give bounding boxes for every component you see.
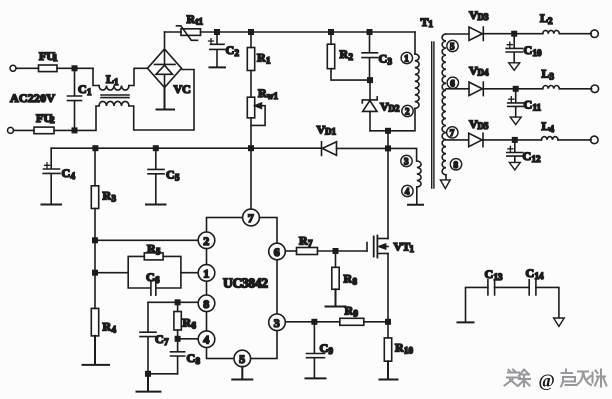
svg-text:3: 3 [112,194,117,204]
svg-text:8: 8 [353,277,358,287]
ground bar below R8 [326,289,346,306]
svg-text:9: 9 [329,346,334,356]
wire FU1 to node A and L1 [57,67,93,69]
svg-text:11: 11 [533,103,542,113]
wire bridge top vertex to top rail [164,32,166,49]
svg-text:4: 4 [71,171,76,181]
junction at C3 top [367,30,371,34]
svg-text:D3: D3 [478,12,489,22]
pin 3 circle UC3842 [269,314,286,331]
op-amp U1 IC UC3842 body [207,218,278,359]
svg-text:R: R [340,47,349,61]
svg-text:R: R [299,234,308,248]
capacitor C12 electrolytic [507,140,541,164]
svg-text:3: 3 [388,57,393,67]
pin 2 circle T1 [402,105,413,116]
wire L2 to output terminal 1 [559,30,598,38]
svg-text:5: 5 [239,352,245,366]
svg-text:UC3842: UC3842 [223,276,268,291]
svg-text:6: 6 [450,78,455,88]
ground bar below C2 [210,66,226,68]
ground bar below IC pin 5 [232,367,252,380]
wire mid rail [51,147,321,149]
wire L1 bottom winding to bridge right vertex [129,70,194,131]
fuse FU2 [34,111,55,134]
svg-text:7: 7 [164,337,169,347]
pin 5 circle T1 [447,40,458,51]
svg-text:D4: D4 [478,68,489,78]
junction C7 C8 ground node [146,372,150,376]
svg-text:7: 7 [450,128,455,138]
svg-text:C: C [166,168,175,182]
svg-text:VT: VT [394,240,411,254]
svg-text:14: 14 [535,271,545,281]
capacitor C1 [68,68,93,130]
wire C7 C8 bottom bus [148,373,178,375]
svg-text:6: 6 [274,245,280,259]
svg-text:7: 7 [248,211,254,225]
thermistor Rt1 [177,12,204,40]
junction C10 node [512,32,516,36]
wire R3 to R4 column [94,209,96,309]
resistor R1 [247,32,271,71]
wire VD3 to L2 [483,33,543,35]
capacitor C2 electrolytic [209,32,240,67]
diode VD5 [469,117,489,147]
ground bar below T1 pin 4 [408,204,423,206]
pin 7 circle T1 [447,127,458,138]
wire drain riser upper [387,131,389,148]
svg-text:R: R [103,320,112,334]
diode VD3 [469,8,489,41]
svg-text:@: @ [539,371,555,391]
junction mid rail at R3 [93,146,97,150]
junction C9 node [312,320,316,324]
svg-text:C: C [187,351,196,365]
wire to R5 C6 network [95,272,128,274]
wire top rail [165,31,416,33]
svg-text:C: C [523,149,532,163]
svg-text:C: C [146,270,155,284]
ground bar below C13 network left [458,321,474,323]
svg-text:8: 8 [196,356,201,366]
resistor R9 [340,304,364,326]
svg-text:R: R [103,189,112,203]
junction C8 top node [175,337,179,341]
ground arrow below C12 [509,162,520,170]
wire R6 bottom to IC pin 4 [178,330,199,339]
svg-text:1: 1 [203,266,209,280]
transformer T1 label [421,15,434,29]
svg-text:2: 2 [548,16,553,26]
capacitor C4 [43,148,75,203]
ground bar below C5 [146,204,166,206]
pin 1 circle T1 [401,52,412,63]
wire FU2 to L1 bottom winding [54,106,99,130]
junction at R2 [329,30,333,34]
svg-text:R: R [183,316,192,330]
ground bar below C4 [42,204,62,206]
pin 4 circle UC3842 [198,331,215,348]
diode VD1 [317,123,337,156]
svg-text:8: 8 [454,160,459,170]
svg-text:10: 10 [404,346,414,356]
svg-text:L: L [542,67,550,81]
wire AC neutral input to fuse FU2 [8,127,35,133]
wire main junction to transformer pin3 [388,148,417,161]
svg-text:3: 3 [274,316,280,330]
svg-text:6: 6 [192,321,197,331]
svg-text:4: 4 [203,333,209,347]
junction C12 node [513,138,517,142]
svg-text:1: 1 [266,56,271,66]
svg-text:1: 1 [53,53,58,63]
wire R7 to gate node [318,250,368,252]
pin 4 circle T1 [402,185,413,196]
junction source node [386,320,390,324]
junction main drain node [386,146,390,150]
svg-text:R: R [147,242,156,256]
svg-text:R: R [395,341,404,355]
svg-text:C: C [62,166,71,180]
wire IC pin 3 to R9 [285,321,340,323]
resistor R2 [327,32,353,69]
svg-text:1: 1 [410,244,415,254]
wire secondary tap pin7 to VD5 [446,139,469,141]
capacitor C5 [148,148,180,203]
svg-text:C: C [226,43,235,57]
bridge rectifier VC [148,49,191,96]
svg-text:R: R [258,86,267,100]
svg-text:w1: w1 [267,91,278,101]
junction mid rail at C5 [154,146,158,150]
svg-text:6: 6 [155,275,160,285]
svg-text:2: 2 [349,52,354,62]
ground arrow below secondary winding pin 8 [440,180,450,189]
junction C11 node [514,87,518,91]
svg-text:D2: D2 [389,104,400,114]
svg-text:5: 5 [175,173,180,183]
inductor L1 common-mode choke [93,68,129,106]
capacitor C9 [307,322,334,378]
ground bar below C9 [306,377,326,379]
wire C13 C14 network [466,287,559,321]
svg-text:C: C [155,332,164,346]
ground arrow below C10 [509,63,520,71]
svg-text:1: 1 [429,19,434,29]
svg-text:AC220V: AC220V [10,91,55,105]
wire IC pin 6 to R7 [285,250,296,252]
svg-text:3: 3 [404,157,409,167]
pin 8 circle UC3842 [198,295,215,312]
ground arrow below C11 [510,117,521,125]
svg-text:T: T [421,15,429,29]
transformer T1 feedback winding pins 3-4 [417,161,421,204]
svg-text:C: C [379,52,388,66]
wire secondary tap pin5 to VD3 [446,33,469,35]
node A junction [72,66,76,70]
capacitor C10 electrolytic [506,34,542,63]
wire to IC pin 2 [95,239,198,241]
node B junction on neutral [72,128,76,132]
watermark 头条@卢飞快 [505,370,607,391]
capacitor C7 [140,302,169,374]
ground arrow below C14 network right [554,318,565,326]
svg-text:10: 10 [533,48,543,58]
pin 6 circle UC3842 [269,243,286,260]
junction drain node top [386,129,390,133]
junction pin1 network node [93,271,97,275]
wire L3 to output terminal 2 [559,85,598,93]
junction R6 top node [175,300,179,304]
wire VD1 to main junction [337,147,389,149]
junction at R1 [249,30,253,34]
svg-text:1: 1 [87,87,92,97]
svg-text:2: 2 [50,115,55,125]
pin 6 circle T1 [447,77,458,88]
svg-text:1: 1 [404,54,409,64]
capacitor C3 [362,32,393,80]
svg-text:8: 8 [203,297,209,311]
svg-text:4: 4 [550,124,555,134]
junction gate node [333,249,337,253]
transformer T1 secondary winding [442,34,446,180]
potentiometer Rw1 [247,71,278,126]
capacitor C13 [485,267,504,295]
junction mid rail at pin7 riser [249,146,253,150]
svg-text:R: R [257,51,266,65]
pin 1 circle UC3842 [198,265,215,282]
svg-text:4: 4 [112,325,117,335]
svg-text:R: R [344,272,353,286]
svg-text:R: R [345,304,354,318]
svg-text:1: 1 [114,77,119,87]
junction clamp node [368,78,372,82]
resistor R7 [297,234,318,255]
svg-text:2: 2 [235,48,240,58]
svg-text:L: L [542,119,550,133]
transformer T1 core [432,42,434,188]
svg-text:C: C [524,98,533,112]
inductor L4 [542,119,559,140]
svg-text:L: L [106,72,114,86]
svg-text:9: 9 [354,309,359,319]
wire L1 top winding to bridge left vertex [129,68,148,85]
svg-text:C: C [526,266,535,280]
svg-text:C: C [320,341,329,355]
svg-text:L: L [540,11,548,25]
svg-text:t1: t1 [196,17,204,27]
pin 3 circle T1 [401,155,412,166]
fuse FU1 [39,49,59,72]
wire L4 to output terminal 3 [558,136,598,144]
svg-text:VC: VC [174,82,191,96]
diode VD4 [469,64,489,96]
resistor R5 with capacitor C6 parallel loop [128,242,181,296]
ground bar below bridge VC [157,88,175,110]
wire R9 to source node [364,321,388,323]
resistor R4 [91,308,116,336]
ground bar below C7 C8 [137,374,161,392]
svg-text:5: 5 [450,42,455,52]
wire pin7 riser [250,148,252,209]
junction pin2 node [93,238,97,242]
svg-text:5: 5 [156,247,161,257]
resistor R10 [384,322,413,361]
inductor L3 [542,67,560,89]
svg-text:C: C [524,43,533,57]
junction at C2 [215,30,219,34]
resistor R3 [91,148,116,208]
resistor R8 [332,251,358,289]
wire R2 bottom to clamp node [331,69,370,80]
capacitor C11 electrolytic [508,89,542,117]
wire Rw1 to mid rail junction [250,118,252,148]
pin 8 circle T1 [450,159,461,170]
svg-text:C: C [485,267,494,281]
pin 5 circle UC3842 [234,350,251,367]
ground bar below R4 [83,336,110,365]
node AC220V input label [10,91,55,105]
wire secondary tap pin6 to VD4 [446,88,469,90]
wire drain riser lower [387,148,389,238]
wire IC pin 8 node [148,301,198,303]
svg-text:C: C [78,82,87,96]
pin 7 circle UC3842 [243,209,260,226]
inductor L2 [540,11,559,34]
svg-text:7: 7 [308,239,313,249]
svg-text:3: 3 [550,72,555,82]
wire R5 C6 network to IC pin 1 [181,272,198,274]
svg-text:D1: D1 [325,127,336,137]
transistor Q1 MOSFET VT1 [367,236,415,258]
resistor R6 [174,302,197,330]
capacitor C14 [526,266,545,295]
svg-text:12: 12 [532,154,542,164]
pin 2 circle UC3842 [198,232,215,249]
wire VD5 to L4 [483,139,542,141]
wire source to R10 node [387,254,389,322]
zener diode VD2 [362,80,400,131]
wire AC live input to fuse FU1 [10,65,39,71]
capacitor C8 [171,339,201,374]
svg-text:R: R [187,12,196,26]
svg-text:2: 2 [405,107,410,117]
ground bar below R10 [380,361,398,379]
svg-text:D5: D5 [478,121,489,131]
svg-text:4: 4 [405,187,410,197]
svg-text:2: 2 [203,234,209,248]
transformer T1 primary winding pins 1-2 [415,32,419,108]
wire VD2 bottom to transformer pin2 [370,108,415,130]
svg-text:13: 13 [494,272,504,282]
wire VD4 to L3 [483,88,543,90]
